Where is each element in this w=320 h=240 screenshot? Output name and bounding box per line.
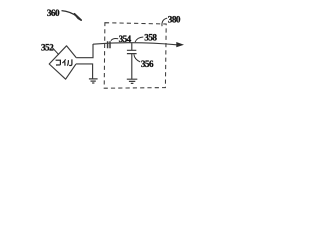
wire: coil upper terminal up to main line	[76, 44, 93, 58]
capacitor 354 (series, plates as vertical bars)	[108, 41, 110, 48]
svg-text:352: 352	[41, 43, 54, 53]
svg-text:354: 354	[119, 34, 132, 44]
leader for 358	[135, 37, 143, 42]
svg-text:358: 358	[144, 32, 157, 42]
svg-text:380: 380	[168, 14, 181, 24]
wire: main signal line (node between coil and output)	[93, 43, 177, 45]
leader for 352	[52, 48, 59, 55]
leader for 380	[162, 18, 167, 26]
ground at coil return	[89, 79, 98, 83]
coil text (katakana koiru) drawn as strokes	[56, 59, 72, 65]
ground under capacitor 356	[127, 79, 138, 83]
leader arrow for 360	[62, 11, 78, 17]
wire: coil lower terminal to ground	[76, 64, 93, 79]
svg-text:360: 360	[47, 8, 60, 18]
leader for 354	[111, 38, 118, 40]
capacitor 356 (shunt to ground)	[131, 43, 133, 51]
leader for 356	[134, 54, 140, 62]
svg-text:356: 356	[141, 59, 154, 69]
output arrowhead	[176, 42, 184, 47]
dashed enclosure box 380	[104, 23, 166, 89]
coil 352 (diamond symbol, open on right)	[49, 46, 76, 79]
